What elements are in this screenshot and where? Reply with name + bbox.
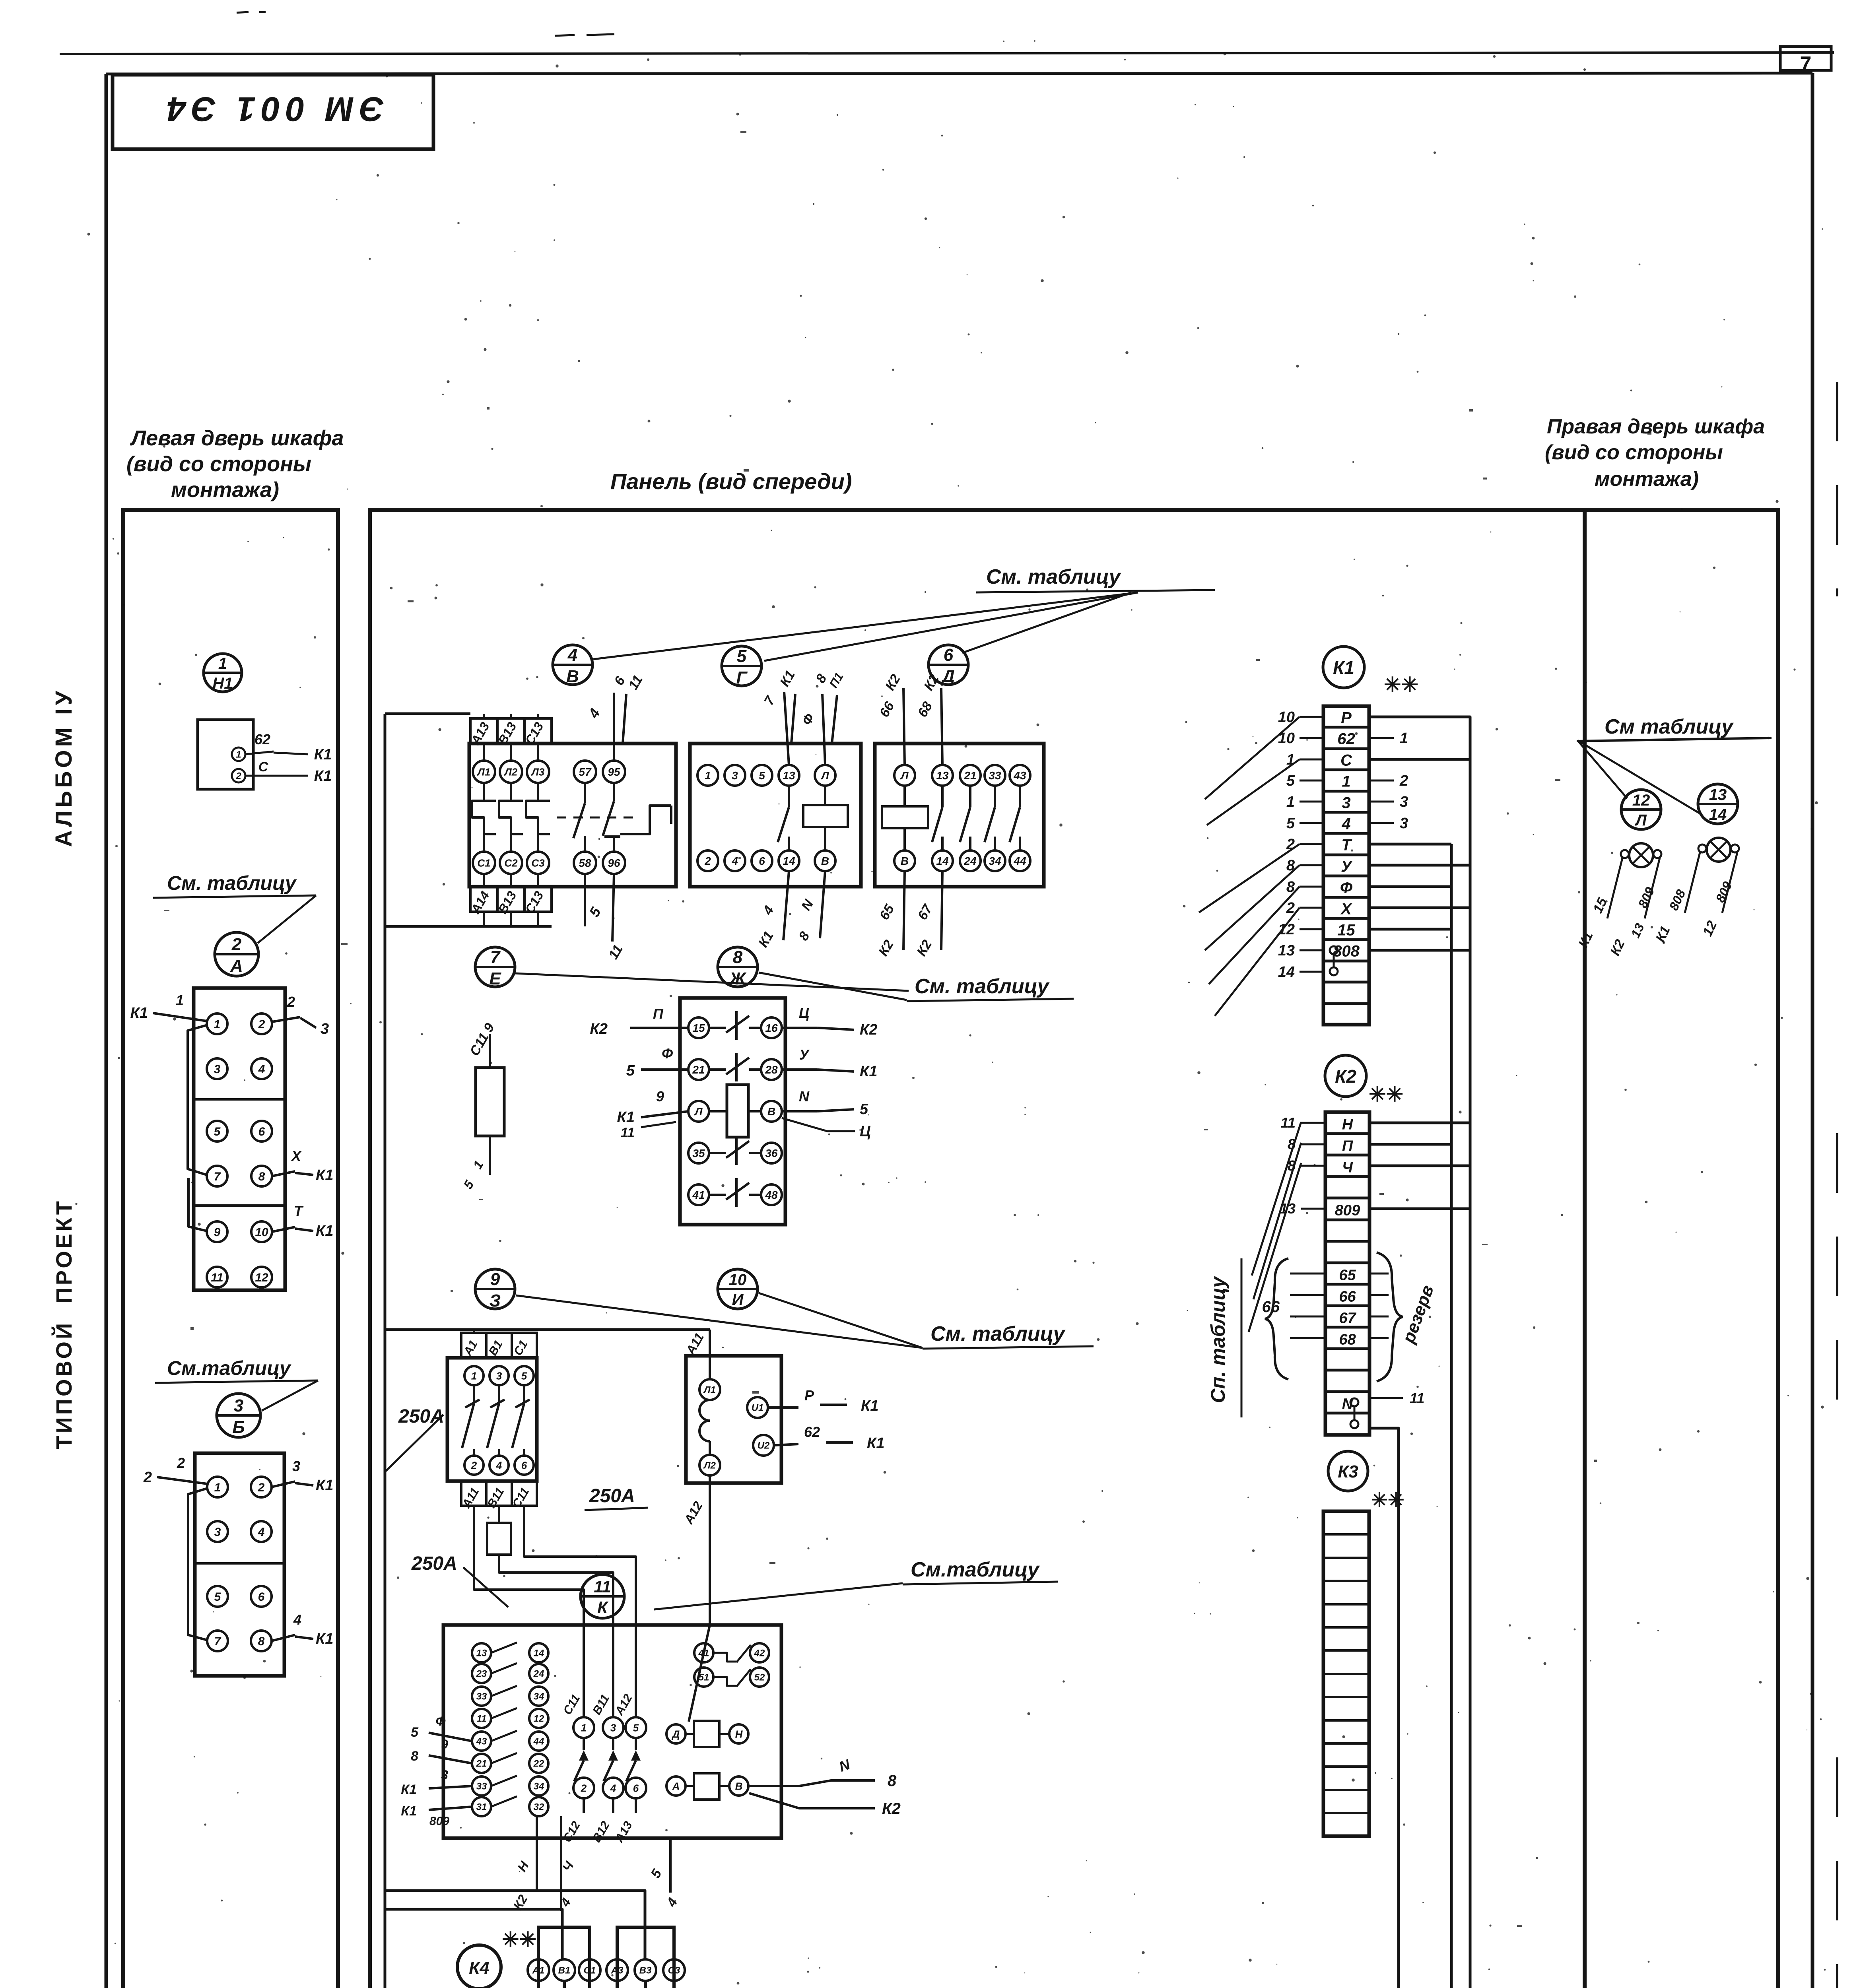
svg-text:250А: 250А [589, 1485, 635, 1507]
svg-text:6: 6 [258, 1590, 265, 1604]
svg-text:Н: Н [1342, 1116, 1354, 1133]
transformer 10/I body [686, 1356, 781, 1483]
svg-text:34: 34 [534, 1781, 544, 1792]
relay 6/D contacts [941, 786, 944, 807]
svg-text:7: 7 [490, 947, 501, 967]
wire down from 96 labels 5 11 [612, 874, 614, 942]
svg-text:Л1: Л1 [477, 766, 490, 778]
relay 11/K body [443, 1625, 781, 1838]
leader to 3/B [262, 1380, 318, 1411]
coil D-N [666, 1724, 686, 1743]
K2 right wires [1369, 1122, 1470, 1124]
svg-text:95: 95 [608, 766, 620, 778]
svg-text:34: 34 [534, 1691, 544, 1702]
svg-text:U2: U2 [758, 1441, 770, 1451]
svg-text:В: В [566, 667, 579, 686]
svg-text:28: 28 [765, 1064, 778, 1076]
svg-text:К1: К1 [617, 1109, 635, 1126]
svg-text:Ж: Ж [729, 969, 747, 988]
svg-text:А1: А1 [532, 1965, 545, 1976]
K2 left stubs [1301, 1122, 1325, 1124]
svg-text:2: 2 [143, 1469, 152, 1486]
svg-text:Т: Т [294, 1203, 304, 1219]
wire terminal 8 X K1 [272, 1171, 295, 1176]
svg-text:250А: 250А [411, 1553, 457, 1574]
svg-text:Сп. таблицу: Сп. таблицу [1207, 1276, 1229, 1403]
aux bracket contact right [620, 806, 671, 834]
svg-text:Л: Л [820, 769, 829, 782]
svg-text:(вид со стороны: (вид со стороны [1545, 441, 1723, 464]
svg-text:2: 2 [258, 1018, 265, 1031]
wire C to K1 [245, 775, 278, 777]
svg-text:24: 24 [533, 1669, 544, 1679]
svg-text:(вид со стороны: (вид со стороны [126, 452, 311, 476]
svg-text:Л: Л [1634, 812, 1647, 829]
svg-text:7: 7 [214, 1170, 221, 1183]
right contacts 41-42 51-52 [694, 1643, 713, 1662]
svg-text:1: 1 [236, 749, 241, 760]
relay H1 terminal box [198, 720, 253, 789]
wire terminal 10 T K1 [272, 1227, 295, 1232]
svg-text:U1: U1 [752, 1403, 764, 1413]
svg-text:В: В [821, 855, 829, 867]
svg-text:6: 6 [759, 855, 765, 867]
leader long to wire [654, 1583, 903, 1609]
svg-text:С3: С3 [531, 857, 545, 869]
svg-text:К1: К1 [316, 1167, 334, 1184]
svg-text:✳✳: ✳✳ [1384, 674, 1418, 697]
svg-text:К2: К2 [860, 1021, 878, 1038]
svg-text:К1: К1 [314, 768, 332, 784]
svg-text:А: А [672, 1780, 680, 1792]
wires up from 13 labels 7 K1 [784, 692, 789, 765]
svg-text:1: 1 [1286, 794, 1295, 810]
svg-text:12: 12 [1632, 792, 1650, 809]
svg-text:X: X [291, 1148, 302, 1164]
dashed actuator link [557, 817, 636, 819]
svg-text:Ц: Ц [860, 1123, 871, 1140]
relay 8/Zh body [680, 998, 785, 1225]
svg-text:41: 41 [698, 1648, 709, 1659]
contactor 4/V phase label cells bottom [470, 887, 552, 912]
wires from contactor terminals to label cells [483, 744, 485, 761]
svg-text:Ф: Ф [662, 1045, 673, 1062]
svg-text:Б: Б [232, 1417, 245, 1437]
svg-text:Н1: Н1 [212, 675, 233, 692]
svg-text:3: 3 [496, 1370, 502, 1382]
svg-text:У: У [1341, 858, 1353, 876]
svg-text:3: 3 [1400, 815, 1408, 832]
svg-text:✳✳: ✳✳ [1371, 1489, 1404, 1511]
svg-text:В: В [767, 1105, 775, 1118]
svg-text:13: 13 [783, 769, 795, 782]
svg-text:ЭМ 001 Э4: ЭМ 001 Э4 [161, 90, 384, 128]
K1 left stub wires with numbers [1300, 716, 1323, 718]
relay 6/D top terminals [894, 765, 915, 786]
svg-text:К1: К1 [861, 1398, 879, 1414]
svg-text:Правая дверь шкафа: Правая дверь шкафа [1547, 415, 1765, 438]
svg-text:Ц: Ц [799, 1005, 809, 1021]
contact symbols rows 1 2 4 5 [709, 1027, 726, 1029]
svg-text:67: 67 [1339, 1310, 1356, 1326]
svg-text:1: 1 [1400, 730, 1408, 747]
svg-text:16: 16 [765, 1022, 778, 1034]
svg-text:монтажа): монтажа) [171, 478, 279, 502]
svg-text:2: 2 [471, 1459, 477, 1471]
svg-text:11: 11 [1281, 1114, 1296, 1131]
breaker 9/Z body [447, 1358, 537, 1481]
svg-text:1: 1 [705, 769, 711, 782]
svg-text:См.таблицу: См.таблицу [167, 1357, 291, 1379]
leaders to 9/Z and 10/I [516, 1295, 923, 1348]
svg-text:23: 23 [476, 1669, 487, 1679]
designator circle K1 [1323, 646, 1364, 688]
svg-text:14: 14 [534, 1648, 544, 1659]
relay 6/D bottom terminals [894, 850, 915, 871]
svg-text:1: 1 [176, 992, 184, 1008]
svg-text:С3: С3 [668, 1965, 680, 1976]
designator circle 4/V [553, 645, 592, 685]
designator circle 1/H1 [204, 654, 242, 692]
svg-text:8: 8 [733, 947, 743, 967]
svg-text:11: 11 [1410, 1390, 1424, 1406]
wires from breaker bottom to block 11/K [474, 1506, 584, 1718]
svg-text:3: 3 [234, 1396, 243, 1415]
wires down from 14 labels 67 K2 [941, 871, 942, 950]
svg-text:См. таблицу: См. таблицу [986, 565, 1122, 588]
svg-text:Левая дверь шкафа: Левая дверь шкафа [130, 426, 344, 450]
designator circle K3 [1328, 1451, 1368, 1491]
leader to 8/Zh [759, 973, 907, 1000]
jumper hook terminals 1-7-9 [188, 1025, 207, 1175]
svg-text:2: 2 [704, 855, 711, 867]
relay 6/D coil [882, 806, 928, 828]
designator circle 2/A [215, 932, 258, 976]
lamp HL1 [1629, 843, 1653, 867]
svg-text:Панель (вид спереди): Панель (вид спереди) [610, 469, 852, 494]
svg-text:13: 13 [936, 769, 949, 782]
svg-text:5: 5 [411, 1725, 419, 1740]
svg-text:Х: Х [1340, 901, 1352, 918]
svg-text:33: 33 [989, 769, 1001, 782]
wire into 11/K toward D coil [689, 1625, 710, 1722]
K1 ribbon wires to vertical buses [1369, 843, 1451, 846]
fuse C11 [489, 1034, 491, 1175]
svg-text:См. таблицу: См. таблицу [930, 1322, 1066, 1345]
left contact rows [472, 1643, 491, 1662]
svg-text:К1: К1 [860, 1063, 878, 1080]
svg-text:250А: 250А [398, 1406, 444, 1427]
thermal overload elements [483, 783, 485, 801]
designator circle 11/K [581, 1574, 624, 1618]
K2 bottom cell wire to vertical [1369, 1428, 1399, 1988]
svg-text:Л: Л [694, 1105, 703, 1118]
wire terminal 8 to 4 K1 [272, 1635, 295, 1641]
stray scanner marks top [555, 35, 575, 36]
svg-text:К1: К1 [314, 746, 332, 763]
svg-text:62: 62 [254, 731, 270, 747]
wires down from V labels N 8 [820, 871, 825, 938]
designator circle 12/L [1621, 790, 1661, 829]
svg-text:Т: Т [1341, 837, 1352, 854]
svg-text:К1: К1 [867, 1435, 885, 1452]
lamp HL2 leads and labels [1685, 852, 1700, 913]
wire loop bottom of contactor [385, 925, 552, 928]
svg-text:К1: К1 [401, 1804, 417, 1819]
designator circle 7/E [475, 947, 515, 987]
K4 terminal box 2 [617, 1927, 674, 1988]
svg-text:3: 3 [1342, 794, 1350, 812]
leader from 7/E [515, 973, 909, 991]
svg-text:1: 1 [214, 1481, 221, 1494]
svg-text:3: 3 [214, 1063, 221, 1076]
horizontal feeder wire to breaker/transformer [385, 1328, 710, 1331]
designator circle 8/Zh [718, 947, 758, 987]
K1 strip body [1323, 706, 1369, 1025]
svg-text:8: 8 [258, 1170, 265, 1183]
svg-text:6: 6 [521, 1459, 527, 1471]
designator circle 6/D [929, 645, 968, 685]
wire stub to contactor top [385, 712, 470, 715]
svg-text:6: 6 [633, 1782, 639, 1794]
svg-text:5: 5 [737, 646, 747, 666]
dashed margin line right [1836, 382, 1838, 596]
relay 5/G top terminals [697, 765, 718, 786]
svg-text:Е: Е [489, 969, 501, 988]
svg-text:1: 1 [1342, 773, 1350, 790]
svg-text:2: 2 [1399, 773, 1408, 789]
svg-text:9: 9 [656, 1088, 664, 1105]
svg-text:1: 1 [581, 1722, 587, 1734]
svg-text:13: 13 [1278, 942, 1295, 959]
left door outline [123, 510, 338, 1988]
K4 terminal box 1 [538, 1927, 590, 1988]
main vertical wire bundle left of panel [384, 714, 387, 1988]
svg-text:48: 48 [765, 1189, 778, 1201]
riser E2 [644, 1981, 647, 1988]
relay 8/Zh terminals [688, 1017, 709, 1038]
svg-text:Р: Р [1341, 709, 1352, 727]
svg-text:К1: К1 [316, 1223, 334, 1239]
svg-text:2: 2 [581, 1782, 587, 1794]
svg-text:4: 4 [731, 855, 738, 867]
svg-text:2: 2 [177, 1455, 185, 1471]
transformer coil arcs [699, 1400, 710, 1441]
svg-text:См таблицу: См таблицу [1605, 715, 1734, 738]
border frame second top line [106, 73, 1812, 74]
breaker terminals and contacts [464, 1366, 484, 1385]
contactor 4/V phase label cells top [470, 718, 552, 744]
svg-text:2: 2 [287, 994, 295, 1010]
wire terminal 2 to 3 K1 [272, 1481, 295, 1487]
svg-text:65: 65 [1339, 1267, 1356, 1283]
K1 jumper circles 808 row [1330, 946, 1338, 954]
K2 N row jumper and stub 11 [1350, 1398, 1358, 1406]
svg-text:К1: К1 [1333, 657, 1354, 678]
svg-text:24: 24 [963, 855, 977, 867]
svg-text:С1: С1 [584, 1965, 596, 1976]
svg-text:33: 33 [476, 1691, 487, 1702]
wire U1 to R K1 [768, 1406, 798, 1409]
leader to 2/A [258, 895, 316, 943]
svg-text:15: 15 [1337, 922, 1355, 939]
svg-text:1: 1 [214, 1018, 221, 1031]
svg-text:5: 5 [860, 1101, 868, 1118]
svg-text:12: 12 [534, 1714, 544, 1724]
relay 5/G bottom terminals [697, 850, 718, 871]
svg-text:96: 96 [608, 857, 620, 869]
terminal block A (12 terminals) [194, 988, 285, 1290]
svg-text:8: 8 [258, 1635, 265, 1648]
svg-text:31: 31 [476, 1802, 487, 1813]
svg-text:К: К [597, 1598, 609, 1617]
svg-text:4: 4 [258, 1526, 265, 1539]
svg-text:6: 6 [944, 645, 954, 665]
svg-text:68: 68 [1339, 1331, 1356, 1348]
designator circle 3/B [217, 1394, 260, 1437]
right wires Ts U N [782, 1027, 817, 1029]
svg-text:В3: В3 [639, 1965, 652, 1976]
svg-text:3: 3 [441, 1768, 448, 1782]
transformer bottom wire A12 [709, 1475, 711, 1625]
svg-text:5: 5 [1286, 815, 1295, 832]
svg-text:21: 21 [963, 769, 976, 782]
relay 5/G coil [803, 805, 848, 827]
svg-text:Н: Н [735, 1728, 743, 1740]
svg-text:42: 42 [754, 1648, 765, 1659]
leaders to 12/L and 13/14 [1577, 740, 1627, 798]
svg-text:4: 4 [258, 1063, 265, 1076]
svg-text:12: 12 [255, 1271, 268, 1284]
svg-text:2: 2 [235, 771, 241, 782]
svg-text:11: 11 [621, 1125, 635, 1140]
svg-text:9: 9 [490, 1270, 500, 1289]
svg-text:Л: Л [900, 769, 909, 782]
contactor 4/V bottom terminals [473, 852, 495, 874]
svg-text:35: 35 [692, 1147, 705, 1159]
svg-text:См. таблицу: См. таблицу [915, 975, 1050, 998]
svg-text:В1: В1 [558, 1965, 571, 1976]
svg-text:Ф: Ф [1340, 879, 1353, 897]
designator circle 9/Z [475, 1269, 515, 1309]
svg-text:3: 3 [214, 1526, 221, 1539]
svg-text:9: 9 [441, 1737, 448, 1751]
relay 5/G body [690, 744, 861, 887]
designator circle 10/I [718, 1269, 758, 1309]
sheet number box [1780, 47, 1831, 70]
terminal block B (8 terminals) [195, 1453, 284, 1676]
K1 slanted leader wires [1205, 717, 1300, 799]
bottom exit wires of 11/K [536, 1816, 538, 1890]
designator circle 5/G [722, 646, 761, 686]
svg-text:4: 4 [293, 1611, 301, 1628]
svg-text:21: 21 [692, 1064, 705, 1076]
right door outline [1585, 510, 1778, 1988]
riser E1 [563, 1981, 566, 1988]
svg-text:С: С [258, 759, 268, 775]
svg-text:8: 8 [888, 1772, 897, 1790]
svg-text:809: 809 [429, 1815, 449, 1828]
svg-text:А: А [230, 956, 243, 976]
svg-text:4: 4 [610, 1782, 616, 1794]
svg-text:5: 5 [521, 1370, 527, 1382]
coil A-V [666, 1776, 686, 1796]
svg-text:43: 43 [476, 1736, 487, 1747]
svg-text:62: 62 [804, 1424, 820, 1440]
left outside wires [429, 1733, 472, 1741]
K3 strip body (empty) [1323, 1511, 1369, 1836]
lamp HL1 leads and labels [1607, 858, 1622, 918]
wire 2-2 to terminal 1 [157, 1477, 207, 1484]
svg-text:2: 2 [258, 1481, 265, 1494]
wire terminal 2 to 3 [272, 1017, 300, 1022]
svg-text:9: 9 [214, 1226, 221, 1239]
svg-text:11: 11 [594, 1577, 611, 1596]
svg-text:К4: К4 [469, 1958, 490, 1978]
left wires P F 9 [630, 1027, 688, 1029]
breaker 9/Z phase cells bottom [461, 1481, 537, 1506]
svg-text:Ф: Ф [436, 1714, 446, 1728]
long vertical bus wires [1450, 844, 1453, 1988]
svg-text:К1: К1 [316, 1477, 334, 1494]
svg-text:5: 5 [214, 1125, 221, 1138]
svg-text:Л3: Л3 [531, 766, 545, 778]
svg-text:Ч: Ч [1342, 1159, 1353, 1176]
wires up from L labels 66 K2 [903, 688, 905, 765]
svg-text:13: 13 [476, 1648, 487, 1659]
svg-text:52: 52 [754, 1672, 765, 1683]
svg-text:11: 11 [477, 1714, 487, 1724]
svg-text:Р: Р [804, 1387, 814, 1404]
designator circle 13/14 [1698, 784, 1738, 824]
svg-text:N: N [799, 1088, 810, 1105]
svg-text:44: 44 [1013, 855, 1026, 867]
K2 left slanted leaders [1252, 1122, 1301, 1276]
panel outline [370, 510, 1585, 1988]
svg-text:Д: Д [940, 667, 955, 686]
wire K1-1 to terminal 1 [153, 1013, 207, 1021]
wire U2 to 62 K1 [774, 1444, 798, 1445]
svg-text:✳✳: ✳✳ [1369, 1083, 1403, 1106]
svg-text:3: 3 [610, 1722, 616, 1734]
svg-text:См. таблицу: См. таблицу [167, 872, 297, 894]
svg-text:К2: К2 [1335, 1066, 1356, 1087]
jumper hook terminals 1-7 [188, 1488, 208, 1640]
svg-text:К1: К1 [401, 1782, 417, 1797]
relay 5/G contact 13-14 [788, 786, 790, 807]
svg-text:13: 13 [1709, 786, 1727, 804]
svg-text:14: 14 [783, 855, 795, 867]
wires up from 13 labels 68 K2 [941, 688, 942, 765]
wire down from 58 [584, 874, 586, 926]
svg-text:4: 4 [1341, 815, 1350, 833]
K2 strip body [1325, 1112, 1369, 1435]
designator circle K2 [1325, 1055, 1366, 1097]
svg-text:К1: К1 [316, 1631, 334, 1647]
svg-text:43: 43 [1013, 769, 1026, 782]
lamp HL2 [1707, 838, 1731, 862]
svg-text:К2: К2 [590, 1021, 608, 1037]
svg-text:1: 1 [218, 655, 227, 672]
NC contact 95-96 [613, 783, 615, 801]
border frame left [105, 74, 108, 1988]
svg-text:1: 1 [471, 1370, 477, 1382]
svg-text:8: 8 [411, 1749, 418, 1764]
svg-text:36: 36 [765, 1147, 778, 1159]
svg-text:С: С [1340, 752, 1352, 769]
breaker 9/Z phase cells top [461, 1333, 537, 1357]
wire up from 95 with labels 4 6 11 [613, 693, 615, 761]
